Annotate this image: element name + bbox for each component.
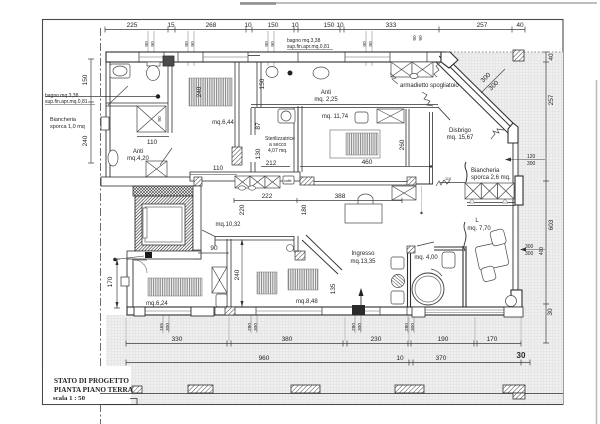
svg-text:90: 90 [418, 35, 424, 41]
svg-text:90: 90 [412, 35, 418, 41]
svg-text:165: 165 [159, 323, 165, 331]
svg-text:PIANTA PIANO TERRA: PIANTA PIANO TERRA [54, 385, 134, 394]
svg-text:300: 300 [527, 161, 536, 167]
svg-text:mq.10,32: mq.10,32 [215, 222, 241, 228]
svg-text:10: 10 [336, 22, 344, 29]
svg-text:mq. 15,67: mq. 15,67 [447, 135, 474, 141]
svg-text:268: 268 [206, 22, 217, 29]
svg-text:30: 30 [547, 308, 554, 316]
svg-text:212: 212 [266, 160, 277, 167]
svg-text:135: 135 [330, 283, 337, 294]
svg-text:90: 90 [184, 41, 190, 47]
svg-text:280: 280 [351, 323, 357, 331]
svg-text:222: 222 [262, 193, 273, 200]
svg-text:STATO DI PROGETTO: STATO DI PROGETTO [54, 376, 129, 385]
svg-text:190: 190 [438, 336, 449, 343]
svg-text:460: 460 [362, 159, 373, 166]
svg-text:300: 300 [525, 251, 534, 257]
svg-text:40: 40 [548, 53, 555, 61]
svg-text:mq.6,24: mq.6,24 [146, 301, 168, 307]
svg-text:170: 170 [487, 336, 498, 343]
svg-text:170: 170 [107, 276, 114, 287]
svg-text:sup.fin.apr.mq.0,81: sup.fin.apr.mq.0,81 [45, 99, 88, 105]
svg-text:257: 257 [548, 94, 555, 105]
svg-text:87: 87 [255, 122, 262, 130]
svg-text:120: 120 [527, 154, 536, 160]
svg-text:Anti: Anti [133, 149, 143, 155]
svg-text:150: 150 [324, 22, 335, 29]
svg-text:330: 330 [172, 336, 183, 343]
svg-text:370: 370 [436, 355, 447, 362]
svg-text:armadietto spogliatoio: armadietto spogliatoio [400, 83, 459, 89]
svg-text:260: 260 [399, 139, 406, 150]
svg-text:10: 10 [291, 22, 299, 29]
svg-text:380: 380 [282, 336, 293, 343]
svg-text:Disbrigo: Disbrigo [449, 128, 472, 134]
svg-text:15: 15 [167, 22, 175, 29]
svg-text:mq. 7,70: mq. 7,70 [467, 226, 491, 232]
svg-text:180: 180 [301, 204, 308, 215]
svg-text:90: 90 [264, 41, 270, 47]
svg-text:333: 333 [386, 22, 397, 29]
svg-text:mq. 4,00: mq. 4,00 [414, 255, 438, 261]
svg-text:90: 90 [210, 245, 218, 252]
svg-text:603: 603 [548, 219, 555, 230]
svg-text:150: 150 [259, 78, 266, 89]
svg-text:mq.8,48: mq.8,48 [296, 299, 318, 305]
svg-text:130: 130 [255, 148, 262, 159]
svg-text:Biancheria: Biancheria [471, 168, 500, 174]
svg-text:scala 1 : 50: scala 1 : 50 [53, 395, 85, 402]
svg-text:280: 280 [247, 323, 253, 331]
svg-text:960: 960 [259, 355, 270, 362]
svg-text:mq. 11,74: mq. 11,74 [322, 114, 349, 120]
svg-text:mq.13,35: mq.13,35 [350, 259, 376, 265]
svg-text:300: 300 [410, 323, 416, 331]
svg-text:300: 300 [357, 323, 363, 331]
svg-text:240: 240 [234, 269, 241, 280]
svg-text:90: 90 [368, 41, 374, 47]
svg-text:40: 40 [516, 22, 524, 29]
svg-text:230: 230 [371, 336, 382, 343]
svg-text:300: 300 [525, 244, 534, 250]
svg-text:mq. 2,25: mq. 2,25 [314, 97, 338, 103]
svg-text:150: 150 [82, 74, 89, 85]
svg-text:150: 150 [268, 22, 279, 29]
svg-text:sup.fin.apr.mq.0,81: sup.fin.apr.mq.0,81 [287, 44, 330, 50]
svg-text:30: 30 [517, 351, 526, 360]
svg-text:10: 10 [396, 355, 404, 362]
svg-text:90: 90 [190, 41, 196, 47]
svg-text:240: 240 [196, 86, 203, 97]
svg-text:Biancheria: Biancheria [50, 117, 77, 123]
svg-text:220: 220 [239, 204, 246, 215]
svg-text:Anti: Anti [321, 90, 331, 96]
svg-text:10: 10 [244, 22, 252, 29]
svg-text:257: 257 [477, 22, 488, 29]
svg-text:90: 90 [270, 41, 276, 47]
svg-text:110: 110 [213, 165, 224, 172]
svg-text:caffe: caffe [284, 179, 292, 183]
svg-text:90: 90 [144, 41, 150, 47]
svg-text:sporca 2,6 mq.: sporca 2,6 mq. [471, 175, 511, 181]
svg-text:mq.6,44: mq.6,44 [212, 120, 234, 126]
svg-text:90: 90 [150, 41, 156, 47]
svg-text:90: 90 [157, 116, 163, 122]
svg-text:110: 110 [147, 139, 158, 146]
svg-text:240: 240 [82, 135, 89, 146]
svg-text:300: 300 [253, 323, 259, 331]
svg-text:sporca 1,0 mq: sporca 1,0 mq [50, 124, 85, 130]
svg-text:388: 388 [335, 193, 346, 200]
svg-text:280: 280 [404, 323, 410, 331]
svg-text:300: 300 [165, 323, 171, 331]
svg-text:225: 225 [127, 22, 138, 29]
svg-text:90: 90 [362, 41, 368, 47]
svg-text:Ingresso: Ingresso [351, 251, 375, 257]
svg-text:110: 110 [445, 177, 451, 181]
svg-text:4,07 mq.: 4,07 mq. [268, 148, 287, 154]
svg-text:400: 400 [539, 247, 545, 256]
